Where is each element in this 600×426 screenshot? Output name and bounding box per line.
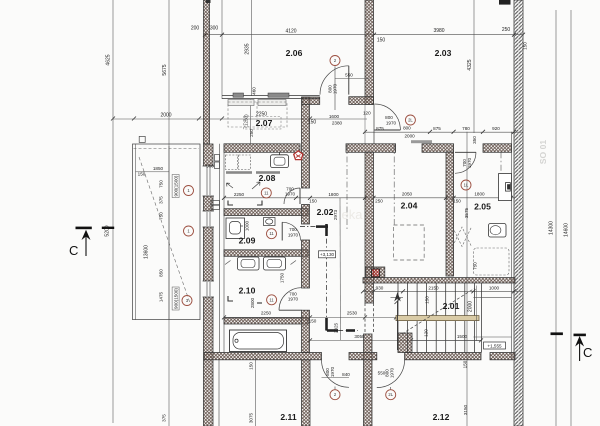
door dim 1970 (2.05) (467, 157, 472, 168)
dim row y291 stair top (363, 290, 523, 292)
shower room 2.05 dashes (453, 227, 510, 275)
stair under-wall (398, 333, 412, 353)
svg-text:1000: 1000 (245, 220, 250, 231)
svg-text:300: 300 (210, 26, 219, 32)
svg-text:500: 500 (206, 164, 214, 169)
svg-text:2250: 2250 (234, 192, 245, 197)
svg-text:150: 150 (308, 120, 317, 126)
wall stair hall top (363, 278, 515, 283)
closet top shelves 2.07 (228, 100, 286, 106)
wall 2.04/2.05 (446, 152, 454, 276)
dimension ticks (111, 33, 525, 343)
boxed label 900(1500) a (172, 175, 179, 198)
room label 2.12 (433, 412, 450, 422)
door 2.11 bubble stem (334, 387, 336, 390)
dim 920 (492, 126, 500, 131)
toilet room 2.05 (489, 224, 507, 238)
dim 1600 corridor (329, 114, 340, 119)
svg-text:3050: 3050 (354, 334, 365, 339)
door bubble 11 (2.10) (267, 295, 277, 305)
wall face line x222 (221, 0, 223, 99)
dim 875 b (433, 126, 441, 131)
dim line x340 corridor (339, 198, 341, 340)
svg-text:11: 11 (269, 297, 274, 302)
balcony dim line (168, 146, 170, 320)
door 2.10 arc (279, 288, 302, 311)
dim 930 (376, 286, 384, 291)
svg-text:800: 800 (385, 115, 393, 120)
door 2.08 arc (284, 188, 300, 204)
room label 2.07 (256, 118, 273, 128)
floor arrows 2.08 (227, 182, 261, 189)
door dim 2000 (2.03) (404, 134, 415, 139)
door dim line 550 (335, 78, 369, 80)
dim 1800 (2.05) (474, 192, 485, 197)
wall corridor left spine 3 (302, 240, 310, 288)
svg-text:2250: 2250 (256, 112, 267, 118)
svg-text:5200: 5200 (105, 225, 111, 236)
bottom wall seg C (405, 353, 481, 360)
room label 2.04 (401, 201, 418, 211)
svg-text:150: 150 (309, 319, 317, 324)
svg-text:150: 150 (453, 199, 461, 204)
level label +3,130 (319, 251, 336, 258)
room label 2.02 (317, 207, 334, 217)
svg-text:750: 750 (159, 180, 164, 188)
balcony inner left edge (135, 144, 137, 320)
room label 2.05 (474, 202, 491, 212)
dim 3575 (464, 207, 469, 218)
washbasins room 2.10 (238, 257, 286, 270)
door dim 700 (2.08) (286, 187, 294, 192)
svg-text:250: 250 (502, 27, 511, 33)
balcony outline (133, 144, 201, 320)
axis dashed 2.02 (346, 144, 348, 230)
room label 2.01 (443, 301, 460, 311)
stair dim 2000 (468, 301, 474, 312)
door bubble 1L (2.05) (461, 180, 471, 190)
svg-text:920: 920 (492, 126, 500, 131)
wall corridor left spine 4 (302, 310, 310, 352)
svg-text:2.05: 2.05 (474, 202, 491, 212)
svg-text:150: 150 (138, 172, 146, 177)
svg-text:3150: 3150 (463, 404, 468, 415)
shaft line a (219, 144, 221, 353)
svg-text:460: 460 (252, 87, 257, 95)
dim row y198 middle (224, 197, 515, 199)
room label 2.03 (435, 48, 452, 58)
svg-text:2000: 2000 (468, 301, 474, 312)
svg-text:250: 250 (375, 199, 383, 204)
top dim line row (205, 34, 523, 36)
room label 2.08 (259, 173, 276, 183)
window bubble 1a (184, 186, 194, 196)
svg-text:2.01: 2.01 (443, 301, 460, 311)
svg-text:1970: 1970 (288, 233, 299, 238)
svg-text:C: C (583, 345, 592, 360)
section line C vertical (326, 224, 328, 331)
svg-text:1000: 1000 (489, 286, 500, 291)
svg-text:550: 550 (345, 73, 353, 78)
door dim 700-1970 (2.05) (462, 159, 467, 167)
svg-text:13600: 13600 (144, 245, 150, 259)
cabinet room 2.05 (499, 174, 512, 201)
svg-text:2025: 2025 (334, 322, 339, 333)
svg-text:875: 875 (376, 126, 384, 131)
svg-text:1970: 1970 (467, 157, 472, 168)
dim line x467 (466, 132, 468, 426)
svg-text:1500: 1500 (457, 334, 468, 339)
door dim 550 (2.06) (345, 73, 353, 78)
door dim 800-1970 (2.11) (325, 368, 330, 376)
door bubble 2 (2.06) (330, 56, 340, 66)
top edge mark left (206, 0, 211, 3)
washer/dryer room 2.08 (226, 155, 251, 170)
axis dashed 2.05 (500, 152, 502, 172)
stair dim 1500 (457, 334, 468, 339)
door axis line 2.06 (334, 66, 336, 110)
svg-text:2.08: 2.08 (259, 173, 276, 183)
dim 14600 (564, 223, 570, 237)
balcony dim 1475 (159, 291, 164, 302)
svg-text:1800: 1800 (474, 192, 485, 197)
dim 200 (191, 26, 200, 32)
svg-text:1850: 1850 (153, 166, 164, 171)
dim 1750 (2.10) (280, 272, 285, 283)
room label 2.06 (286, 48, 303, 58)
svg-text:2050: 2050 (402, 192, 413, 197)
room label 2.09 (239, 236, 256, 246)
svg-text:150: 150 (309, 199, 317, 204)
room label 2.10 (239, 286, 256, 296)
stair dim 150 (425, 296, 430, 304)
stair landing line (473, 336, 511, 338)
svg-text:550: 550 (378, 371, 386, 376)
svg-text:2250: 2250 (261, 311, 272, 316)
svg-text:850: 850 (159, 269, 164, 277)
svg-text:2150: 2150 (428, 286, 439, 291)
boxed label 900(1500) b (172, 287, 179, 310)
section line C horizontal bottom (327, 330, 359, 332)
dim 4120 (285, 29, 296, 35)
dashed cupboard 2.04 (394, 225, 425, 260)
svg-text:3980: 3980 (433, 28, 444, 34)
dim 300 (210, 26, 219, 32)
svg-text:(1250): (1250) (244, 114, 249, 128)
corner basin 2.09 (264, 218, 276, 226)
svg-text:2.09: 2.09 (239, 236, 256, 246)
dim line 2935 (251, 0, 253, 96)
svg-text:14600: 14600 (564, 223, 570, 237)
wall top of 2.08 left (224, 144, 300, 153)
svg-text:150: 150 (523, 42, 528, 50)
door 2.12 bubble stem (390, 387, 392, 390)
wall dashed edge b (373, 303, 375, 334)
dim 250 top (502, 27, 511, 33)
dim 4325 (467, 59, 473, 70)
dim 150 mid-l (309, 199, 317, 204)
dim 150 bath (309, 319, 317, 324)
balcony corner marker (139, 136, 145, 142)
partition pier at 2.06 door (349, 97, 374, 105)
svg-text:11: 11 (264, 190, 269, 195)
svg-text:4325: 4325 (467, 59, 473, 70)
door 2.11 arc (322, 360, 350, 388)
svg-text:1800: 1800 (328, 192, 339, 197)
svg-text:120: 120 (363, 111, 371, 116)
dim 1000 stair (489, 286, 500, 291)
svg-text:+3,130: +3,130 (320, 252, 335, 257)
exterior wall left upper (204, 0, 210, 144)
door dim 840 (2.11) (342, 372, 350, 377)
dim 2800 (2.10) (250, 297, 255, 308)
dim 5200 (105, 225, 111, 236)
boiler symbol (red pentagon) (294, 151, 303, 160)
svg-text:150: 150 (377, 38, 386, 44)
dim 150 mid-r (453, 199, 461, 204)
window bubble 3 (182, 296, 192, 306)
door dim 700 (2.09) (289, 227, 297, 232)
balcony dim 1850 (153, 166, 164, 171)
svg-text:1475: 1475 (159, 291, 164, 302)
svg-text:2935: 2935 (245, 43, 251, 54)
dim 14300 (549, 221, 555, 235)
closet dashed room 2.07 (228, 102, 287, 127)
door dim 1970b (2.11) (330, 366, 335, 377)
room label 2.11 (280, 412, 296, 422)
svg-text:2.03: 2.03 (435, 48, 452, 58)
dashed frame 2.07 label (244, 117, 282, 130)
dim 4625 (106, 54, 112, 65)
door 2.12 arc (377, 360, 405, 388)
svg-text:1970: 1970 (285, 192, 296, 197)
dim 875 a (376, 126, 384, 131)
door dim 1970 (2.06) (333, 83, 338, 94)
dim 150 right of 2.07 (308, 120, 317, 126)
lintel bar above 2.04 opening (411, 140, 432, 143)
balcony dim 750 (159, 180, 164, 188)
stair lower line (411, 339, 481, 341)
partition 2.06/2.07 (222, 96, 320, 99)
dim 120 (2.06) (363, 111, 371, 116)
door bubble 2L (2.12) (386, 390, 396, 400)
stair beam (section cut, tan) (396, 316, 479, 321)
wall corridor left spine 2 (302, 205, 310, 225)
left outer dim line (112, 0, 114, 423)
door dim 550 (2.12) (378, 371, 386, 376)
svg-text:150: 150 (463, 360, 468, 368)
chimney (red hatch) (372, 269, 380, 277)
svg-text:2000: 2000 (404, 134, 415, 139)
svg-text:1970: 1970 (333, 83, 338, 94)
axis dashed 2.04 (393, 144, 395, 225)
svg-text:200: 200 (191, 26, 200, 32)
svg-text:+1,555: +1,555 (487, 343, 502, 348)
svg-text:2L: 2L (408, 118, 413, 123)
svg-text:3075: 3075 (249, 412, 254, 423)
dim 1800 mid (328, 192, 339, 197)
bottom wall seg B (349, 353, 377, 360)
door dim 1970b (2.12) (390, 367, 395, 378)
svg-text:1970: 1970 (288, 297, 299, 302)
svg-text:2.04: 2.04 (401, 201, 418, 211)
wall below 2.10 (224, 318, 308, 324)
wardrobe bars room 2.06 (233, 93, 289, 97)
door 2.06->2.02 arc (320, 66, 349, 95)
corner brackets 2.08 (228, 201, 262, 206)
svg-text:SO 01: SO 01 (538, 140, 548, 165)
svg-text:840: 840 (342, 372, 350, 377)
svg-text:C: C (69, 243, 78, 258)
dim 3980 (433, 28, 444, 34)
door dim 1970 (2.08) (285, 192, 296, 197)
dim 2025 (334, 322, 339, 333)
svg-text:250: 250 (249, 129, 254, 137)
balcony dim 375 (159, 196, 164, 204)
stair break dashed diagonal (402, 288, 475, 334)
bathtub room 2.11 (230, 330, 287, 352)
svg-text:2000: 2000 (160, 113, 171, 119)
dim 2973 (333, 209, 338, 220)
dim 2050 (402, 192, 413, 197)
corner ticks 2.10 (225, 261, 296, 265)
svg-text:1750: 1750 (280, 272, 285, 283)
svg-text:eka: eka (342, 207, 364, 222)
svg-text:150: 150 (425, 296, 430, 304)
wall corridor/2.04 mid (365, 152, 374, 303)
balcony width dim (136, 171, 170, 173)
svg-text:2L: 2L (388, 392, 393, 397)
balcony dim 750 (159, 212, 164, 220)
dim row y132 right wing (364, 131, 523, 133)
svg-text:120: 120 (424, 329, 429, 337)
balcony diagonal dashed (139, 157, 190, 303)
exterior wall right (514, 0, 523, 426)
dim 460 (2.06) (252, 87, 257, 95)
svg-text:2.11: 2.11 (280, 412, 296, 422)
dim 2530 (347, 311, 358, 316)
wall dashed edge a (364, 303, 366, 334)
stair width dim line (476, 286, 478, 342)
right dim line 14300 (555, 10, 557, 426)
right wall inner face (511, 132, 513, 360)
svg-text:2530: 2530 (347, 311, 358, 316)
svg-text:375: 375 (159, 196, 164, 204)
door dim 1970 (2.03) (386, 121, 397, 126)
dim 150 (2.11) (249, 362, 254, 370)
exterior wall left lower (204, 144, 214, 426)
svg-text:700: 700 (289, 227, 297, 232)
window W1 in left wall (203, 166, 214, 196)
dim 2935 (245, 43, 251, 54)
dim 250 (2.07) (249, 129, 254, 137)
balcony dim 150 (138, 172, 146, 177)
watermark letters (342, 207, 364, 222)
dim 3050 (354, 334, 365, 339)
dim 2000 balcony (160, 113, 171, 119)
dim row y340 (310, 339, 481, 341)
dim 2250 bath (261, 311, 272, 316)
dim row y118 (113, 118, 367, 120)
wall top of 2.04 seg (422, 144, 454, 153)
tiny appliance labels 2.08 (226, 171, 280, 174)
dim line x255 room 2.11 (254, 358, 256, 426)
duct boxes left wall 2.08 (211, 155, 220, 210)
level label +1,555 (484, 342, 506, 349)
door dim 800-1970 (2.06) (328, 85, 333, 93)
watermark SO 01 (538, 140, 548, 165)
chimney corner block (366, 267, 385, 278)
svg-text:5675: 5675 (162, 64, 168, 75)
svg-text:900(1500): 900(1500) (174, 288, 179, 309)
corner block 2.07 top right (302, 97, 320, 104)
door dim 800 (2.03) (385, 115, 393, 120)
wall 2.11/2.12 (364, 334, 373, 426)
wall 2.11 right lower (302, 360, 311, 426)
stair landing top line (473, 296, 511, 298)
wall 2.08/2.09 (224, 209, 308, 216)
dim line 4325 (473, 0, 475, 133)
svg-text:350: 350 (472, 136, 477, 144)
svg-text:900(1500): 900(1500) (174, 175, 179, 196)
sink room 2.08 (271, 153, 289, 168)
svg-text:2973: 2973 (333, 209, 338, 220)
stair walk line with arrow (394, 292, 401, 350)
svg-text:2.07: 2.07 (256, 118, 273, 128)
wall 2.09/2.10 (224, 250, 308, 256)
dim 350 r (472, 136, 477, 144)
dim 2380 corridor (332, 121, 343, 126)
shaft line b (223, 144, 225, 353)
dim 250 mid (375, 199, 383, 204)
door dim 1970 (2.10) (288, 297, 299, 302)
dim 1250 (2.07) (244, 114, 249, 128)
door bubble 2f (2.11) (330, 390, 340, 400)
dim 750 (2.05) (473, 262, 478, 270)
section line C horizontal left (300, 226, 328, 228)
svg-text:1970: 1970 (330, 366, 335, 377)
door 2.11 dim line (322, 377, 350, 379)
svg-text:1L: 1L (464, 183, 469, 188)
svg-text:1970: 1970 (390, 367, 395, 378)
svg-text:875: 875 (433, 126, 441, 131)
dim 5675 (162, 64, 168, 75)
svg-text:1970: 1970 (386, 121, 397, 126)
wall face x365b (364, 104, 366, 143)
balcony dim 850 (159, 269, 164, 277)
svg-text:2.12: 2.12 (433, 412, 450, 422)
dim 3150 (2.12) (463, 404, 468, 415)
svg-text:1600: 1600 (329, 114, 340, 119)
svg-text:4625: 4625 (106, 54, 112, 65)
svg-text:375: 375 (162, 414, 167, 422)
window W2 in left wall (203, 211, 214, 227)
stair dim 120 (424, 329, 429, 337)
dim row y317 bath (224, 316, 397, 318)
svg-text:750: 750 (473, 262, 478, 270)
dim 3075 (2.11) (249, 412, 254, 423)
wall top of 2.05 seg (483, 144, 512, 153)
left inner dim line 5675 (168, 0, 170, 426)
section marker C left (69, 227, 92, 258)
dim terminator bar 5200 (102, 227, 114, 229)
door bubble 11 (2.08) (261, 188, 271, 198)
closet divider 2.07 (249, 99, 251, 144)
dim 150 (2.12) (463, 360, 468, 368)
dim 780 (462, 126, 470, 131)
right outer dim line 14600 (570, 10, 572, 426)
dim 375 bottom (162, 414, 167, 422)
